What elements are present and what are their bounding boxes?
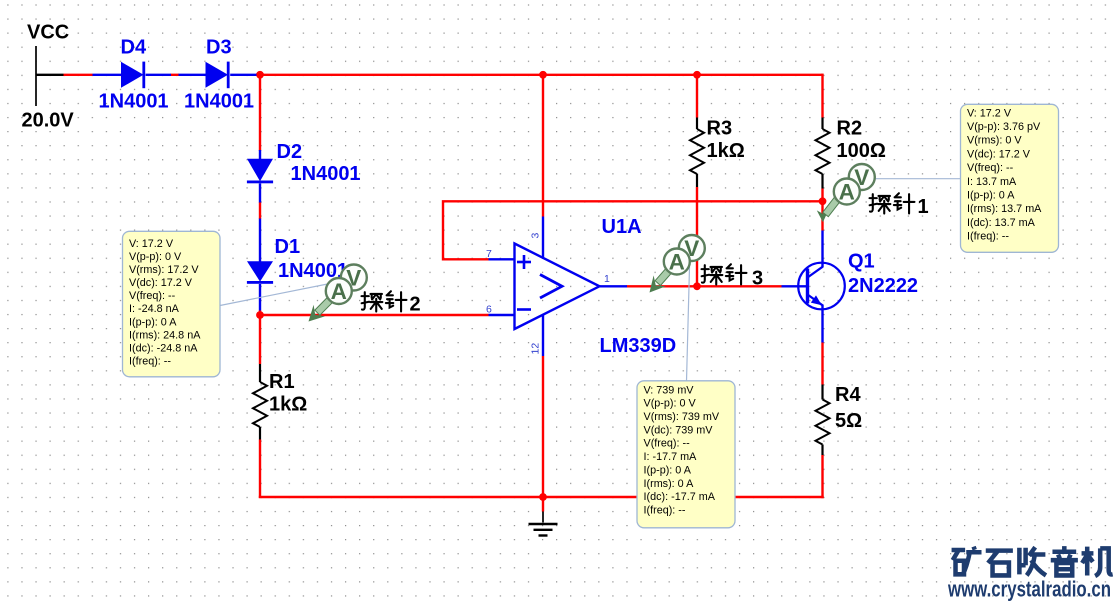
probe label 探针3 (drawn glyphs + digit) xyxy=(702,265,723,284)
svg-text:I(rms): 24.8 nA: I(rms): 24.8 nA xyxy=(129,329,201,341)
svg-text:1N4001: 1N4001 xyxy=(184,91,254,113)
resistor R2 xyxy=(816,118,830,189)
svg-text:2N2222: 2N2222 xyxy=(848,275,918,297)
svg-text:I(dc): -24.8 nA: I(dc): -24.8 nA xyxy=(129,342,198,354)
resistor R1 xyxy=(253,364,267,440)
diode D4 xyxy=(93,62,172,89)
svg-text:100Ω: 100Ω xyxy=(837,140,886,162)
wire top rail red seg VCC-D4 xyxy=(64,74,93,76)
plus xyxy=(517,261,531,264)
callout line box2 to probe3 xyxy=(687,267,690,381)
pin3 lead xyxy=(542,217,544,258)
svg-text:1kΩ: 1kΩ xyxy=(269,394,307,416)
svg-text:1: 1 xyxy=(604,273,610,285)
svg-text:V(rms): 17.2 V: V(rms): 17.2 V xyxy=(129,264,199,276)
svg-text:I: -17.7 mA: I: -17.7 mA xyxy=(644,451,698,463)
wire Q1 emitter to R4 xyxy=(821,343,823,385)
diode D2 (vertical, pointing down) xyxy=(247,150,273,203)
wire D2-D1 red seg xyxy=(259,202,261,219)
svg-text:V(dc): 739 mV: V(dc): 739 mV xyxy=(644,424,714,436)
node feedback/R2 bottom xyxy=(819,197,827,205)
svg-text:I(dc): -17.7 mA: I(dc): -17.7 mA xyxy=(644,491,716,503)
svg-text:R3: R3 xyxy=(707,118,733,140)
measurement tooltip box for 探针1 xyxy=(961,104,1059,252)
svg-text:I(freq): --: I(freq): -- xyxy=(967,231,1009,243)
pin7 lead xyxy=(489,258,515,260)
svg-text:V(freq): --: V(freq): -- xyxy=(644,438,691,450)
node top rail / R3 xyxy=(693,71,701,79)
wire R3 bottom down to output node xyxy=(696,187,698,286)
node top rail / D branch xyxy=(256,71,264,79)
transistor Q1 2N2222 xyxy=(782,231,845,343)
wire top rail junction down to opamp pin3 xyxy=(542,75,544,217)
svg-text:R4: R4 xyxy=(835,384,861,406)
resistor R3 xyxy=(690,118,704,188)
svg-text:2: 2 xyxy=(410,293,421,315)
callout line box1 to probe2 xyxy=(220,284,330,306)
ground xyxy=(529,512,558,536)
wire ground stem (red) xyxy=(542,497,544,512)
minus xyxy=(517,308,531,311)
wire between D4-D3 (red mid seg) xyxy=(171,74,180,76)
svg-text:www.crystalradio.cn: www.crystalradio.cn xyxy=(947,577,1111,602)
svg-text:1N4001: 1N4001 xyxy=(99,91,169,113)
svg-text:I: 13.7 mA: I: 13.7 mA xyxy=(967,176,1017,188)
svg-text:I(p-p): 0 A: I(p-p): 0 A xyxy=(129,316,177,328)
svg-text:Q1: Q1 xyxy=(848,251,875,273)
svg-text:V(freq): --: V(freq): -- xyxy=(967,162,1014,174)
probe 探针2 A/V probe icon at node D1/R1 xyxy=(309,265,367,322)
pin12 lead xyxy=(542,315,544,356)
op-amp U1A triangle xyxy=(489,217,628,357)
logo glyph 收 xyxy=(1019,547,1046,575)
probe label 探针1 (drawn glyphs + digit) xyxy=(870,194,891,213)
svg-text:V(rms): 739 mV: V(rms): 739 mV xyxy=(644,411,720,423)
wire R1 to bottom rail xyxy=(259,440,261,499)
node bottom rail / ground xyxy=(539,493,547,501)
logo glyph 矿 xyxy=(952,547,982,576)
wire pin7 feedback: left, up, right to R2 bottom junction xyxy=(443,201,823,259)
svg-text:V(p-p): 0 V: V(p-p): 0 V xyxy=(644,398,697,410)
comparator mark xyxy=(540,275,562,299)
svg-text:I(dc): 13.7 mA: I(dc): 13.7 mA xyxy=(967,217,1036,229)
logo glyph 音 xyxy=(1051,546,1078,575)
svg-text:6: 6 xyxy=(486,304,492,316)
svg-text:I(rms): 13.7 mA: I(rms): 13.7 mA xyxy=(967,203,1042,215)
node top rail / pin3 xyxy=(539,71,547,79)
pin6 lead xyxy=(489,314,515,316)
svg-text:I: -24.8 nA: I: -24.8 nA xyxy=(129,303,180,315)
svg-text:I(p-p): 0 A: I(p-p): 0 A xyxy=(967,190,1015,202)
svg-text:12: 12 xyxy=(530,343,542,355)
svg-text:D4: D4 xyxy=(121,37,147,59)
logo glyph 石 xyxy=(986,551,1013,576)
wire R3 top from rail xyxy=(696,75,698,118)
svg-text:V: 739 mV: V: 739 mV xyxy=(644,384,695,396)
svg-text:V(p-p): 0 V: V(p-p): 0 V xyxy=(129,251,182,263)
svg-text:V(rms): 0 V: V(rms): 0 V xyxy=(967,135,1022,147)
svg-text:LM339D: LM339D xyxy=(600,335,677,357)
wire node to R1 xyxy=(259,315,261,364)
logo glyph 机 xyxy=(1082,547,1113,576)
svg-text:3: 3 xyxy=(530,233,542,239)
measurement tooltip box for 探针3 xyxy=(637,381,735,528)
svg-text:A: A xyxy=(839,180,855,205)
wire R4 bottom to bottom rail corner xyxy=(821,455,823,498)
svg-text:V(dc): 17.2 V: V(dc): 17.2 V xyxy=(129,277,193,289)
wire left branch down from top rail to D2 xyxy=(259,75,261,151)
wire opamp pin12 down to bottom rail xyxy=(542,356,544,498)
svg-text:D1: D1 xyxy=(275,236,301,258)
svg-text:20.0V: 20.0V xyxy=(22,110,75,132)
svg-text:1: 1 xyxy=(918,196,929,218)
probe label 探针2 (drawn glyphs + digit) xyxy=(362,292,383,311)
svg-text:V: 17.2 V: V: 17.2 V xyxy=(129,238,174,250)
wire R2 top from rail corner xyxy=(821,74,823,118)
svg-text:7: 7 xyxy=(486,248,492,260)
VCC power symbol xyxy=(35,46,37,106)
svg-text:R2: R2 xyxy=(837,118,863,140)
wire R2 bottom to junction and to Q1 collector xyxy=(821,189,823,231)
wire D1 to node (260,315) xyxy=(259,310,261,316)
wire bottom rail xyxy=(259,496,824,498)
pin1 output lead xyxy=(600,285,628,287)
diode D1 (vertical, pointing down) xyxy=(247,219,273,311)
wire top rail D3 to R2 corner xyxy=(256,74,823,76)
svg-text:D2: D2 xyxy=(277,141,303,163)
svg-text:R1: R1 xyxy=(269,371,295,393)
svg-text:D3: D3 xyxy=(206,37,232,59)
diode D3 xyxy=(179,62,257,89)
svg-text:3: 3 xyxy=(752,268,763,290)
svg-text:U1A: U1A xyxy=(602,216,642,238)
svg-text:V(freq): --: V(freq): -- xyxy=(129,290,176,302)
node D1/R1/pin6 xyxy=(256,311,264,319)
svg-text:1N4001: 1N4001 xyxy=(291,163,361,185)
resistor R4 xyxy=(816,385,830,456)
svg-text:V(dc): 17.2 V: V(dc): 17.2 V xyxy=(967,148,1031,160)
svg-text:A: A xyxy=(331,279,347,304)
callout line box3 to probe1 xyxy=(874,178,961,180)
svg-text:I(freq): --: I(freq): -- xyxy=(129,355,171,367)
measurement tooltip box for 探针2 xyxy=(123,231,221,376)
wire opamp output to Q1 base xyxy=(627,285,782,287)
svg-text:VCC: VCC xyxy=(27,22,69,44)
wire node(260,315) to opamp pin6 xyxy=(260,314,489,316)
node output/R3 bottom xyxy=(693,282,701,290)
svg-text:A: A xyxy=(669,250,685,275)
svg-text:5Ω: 5Ω xyxy=(835,410,862,432)
svg-text:V(p-p): 3.76 pV: V(p-p): 3.76 pV xyxy=(967,121,1041,133)
wire VCC lead (black) xyxy=(36,74,64,76)
svg-text:1kΩ: 1kΩ xyxy=(707,140,745,162)
svg-text:I(rms): 0 A: I(rms): 0 A xyxy=(644,478,695,490)
svg-text:V: 17.2 V: V: 17.2 V xyxy=(967,107,1012,119)
svg-text:I(p-p): 0 A: I(p-p): 0 A xyxy=(644,464,692,476)
probe 探针1 A/V probe icon at R2/collector node xyxy=(817,164,875,222)
probe 探针3 A/V probe icon at op-amp output node xyxy=(650,235,705,293)
svg-text:I(freq): --: I(freq): -- xyxy=(644,505,686,517)
